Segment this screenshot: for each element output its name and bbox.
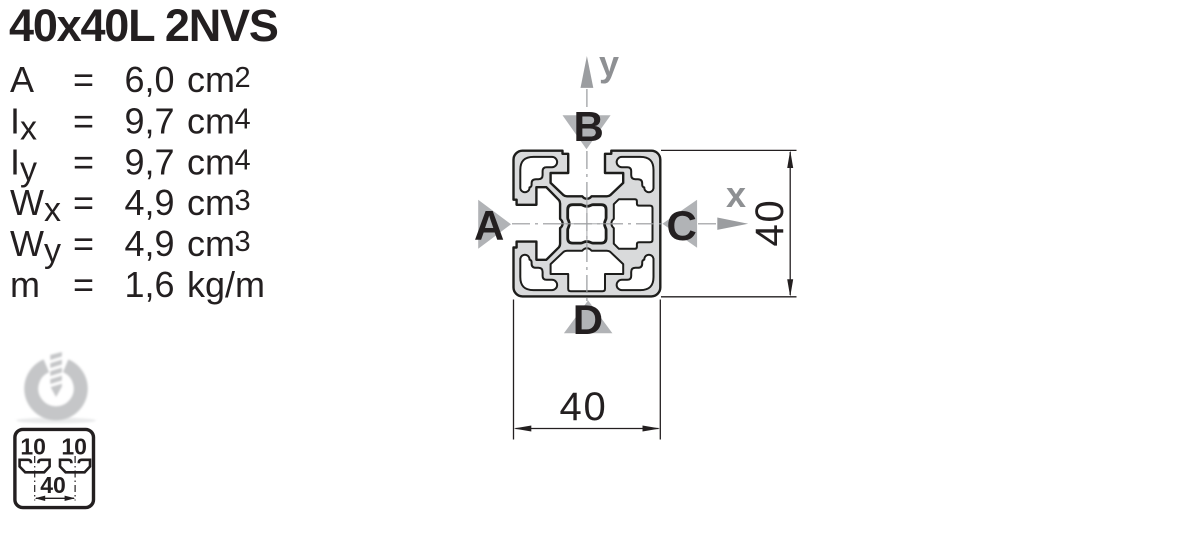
svg-text:40x40L 2NVS: 40x40L 2NVS bbox=[9, 0, 278, 51]
svg-text:kg/m: kg/m bbox=[187, 264, 265, 305]
svg-text:40: 40 bbox=[748, 198, 792, 246]
svg-text:4,9: 4,9 bbox=[125, 182, 175, 223]
svg-text:x: x bbox=[726, 174, 746, 215]
svg-text:A: A bbox=[10, 59, 34, 100]
svg-text:C: C bbox=[667, 202, 697, 249]
svg-text:=: = bbox=[73, 182, 94, 223]
svg-text:3: 3 bbox=[235, 226, 251, 258]
svg-text:=: = bbox=[73, 141, 94, 182]
svg-text:D: D bbox=[573, 296, 603, 343]
svg-text:y: y bbox=[599, 43, 619, 84]
svg-text:=: = bbox=[73, 59, 94, 100]
svg-text:2: 2 bbox=[235, 62, 251, 94]
svg-text:cm: cm bbox=[187, 141, 235, 182]
svg-text:3: 3 bbox=[235, 185, 251, 217]
svg-text:4: 4 bbox=[235, 103, 251, 135]
svg-text:cm: cm bbox=[187, 59, 235, 100]
svg-text:cm: cm bbox=[187, 223, 235, 264]
svg-text:40: 40 bbox=[40, 472, 66, 498]
svg-text:4,9: 4,9 bbox=[125, 223, 175, 264]
svg-text:=: = bbox=[73, 100, 94, 141]
svg-text:A: A bbox=[474, 202, 504, 249]
svg-text:B: B bbox=[574, 103, 604, 150]
svg-text:6,0: 6,0 bbox=[125, 59, 175, 100]
svg-text:m: m bbox=[10, 264, 40, 305]
svg-text:9,7: 9,7 bbox=[125, 100, 175, 141]
svg-text:10: 10 bbox=[20, 434, 46, 460]
svg-text:40: 40 bbox=[560, 385, 608, 429]
svg-text:1,6: 1,6 bbox=[125, 264, 175, 305]
svg-text:9,7: 9,7 bbox=[125, 141, 175, 182]
svg-text:cm: cm bbox=[187, 100, 235, 141]
svg-text:4: 4 bbox=[235, 144, 251, 176]
svg-text:10: 10 bbox=[61, 434, 87, 460]
svg-text:=: = bbox=[73, 264, 94, 305]
svg-text:cm: cm bbox=[187, 182, 235, 223]
svg-text:=: = bbox=[73, 223, 94, 264]
